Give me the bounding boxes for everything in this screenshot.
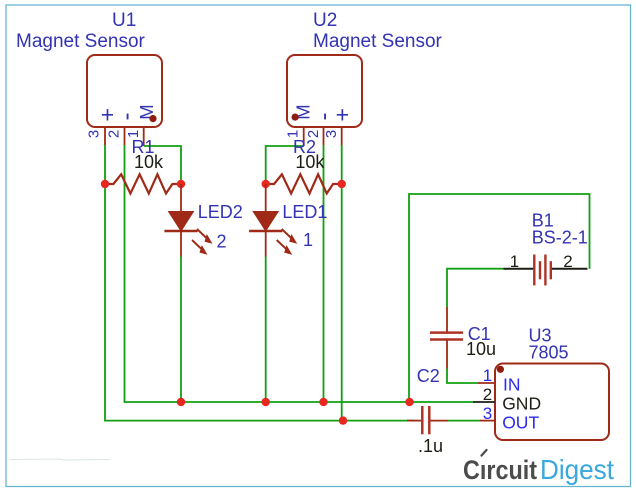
wire battery loop: down from top corner to upper bus [409,194,590,402]
watermark squiggle [10,459,110,460]
U1 origin dot [149,115,156,122]
svg-text:BS-2-1: BS-2-1 [532,228,588,248]
junction: LED1 line on upper bus [262,398,270,406]
svg-text:+: + [336,102,349,128]
battery B1 [504,255,588,286]
svg-text:C2: C2 [417,366,440,386]
svg-text:1: 1 [510,252,519,271]
svg-text:IN: IN [503,375,521,395]
resistor R1 [105,174,181,193]
capacitor C2 [407,406,448,434]
junction: U2 pin2 on upper bus [319,398,327,406]
svg-text:Digest: Digest [540,454,614,485]
U2 pin 2 stub [323,127,325,146]
svg-text:3: 3 [86,130,103,138]
svg-text:U2: U2 [313,10,337,31]
svg-text:Magnet Sensor: Magnet Sensor [313,31,443,52]
svg-text:-: - [310,113,337,121]
svg-text:GND: GND [502,394,541,414]
svg-text:2: 2 [217,232,227,252]
svg-text:LED2: LED2 [198,202,243,222]
wire battery pin1 to C1 branch [447,269,504,307]
U3 pin 3 stub [480,420,495,422]
svg-text:OUT: OUT [502,412,539,432]
svg-text:1: 1 [303,230,313,250]
R2 left junction [262,180,270,188]
wire U1 pin3 to lower bus and along lower bus to C2 [105,145,414,421]
wire LED2 cathode down to upper bus [180,257,182,403]
svg-text:7805: 7805 [529,343,569,363]
magnet sensor U2 body [287,55,362,127]
junction: battery loop on upper bus [405,398,413,406]
U3 origin dot [497,366,504,373]
svg-text:Cırcuit: Cırcuit [463,455,537,485]
svg-text:Magnet Sensor: Magnet Sensor [16,31,146,52]
svg-text:10k: 10k [295,152,325,172]
capacitor C1 [430,307,463,369]
R1 left junction [101,180,109,188]
svg-text:LED1: LED1 [282,202,327,222]
magnet sensor U1 body [87,55,162,127]
svg-text:10u: 10u [466,339,496,359]
U1 pin 1 stub [143,127,145,146]
U3 pin 1 stub [478,382,495,384]
U2 origin dot [292,114,299,121]
wire C2 right to U3 pin3 [448,420,480,422]
wire U1 pin2 to upper bus and along upper bus to U3 pin2 [125,145,474,402]
resistor R2 [266,174,342,193]
junction: U2 pin3 on lower bus [339,416,347,424]
wire U2 pin1 over to R2 left node [266,146,304,184]
wire U2 pin3 down to lower bus [341,145,343,421]
svg-text:2: 2 [563,252,572,271]
junction: LED2 line on upper bus [177,398,185,406]
svg-text:U1: U1 [112,10,136,31]
svg-text:.1u: .1u [418,436,443,456]
U1 pin 2 stub [124,127,126,146]
wire U1 pin1 over to R1 right node [144,146,181,184]
CircuitDigest logo [463,450,614,485]
U3 pin 2 stub (GND, black) [473,401,495,403]
svg-text:2: 2 [106,130,123,138]
LED2 [164,184,212,257]
svg-text:10k: 10k [134,152,164,172]
U2 pin 3 stub [341,127,343,146]
U2 pin 1 stub [303,127,305,146]
svg-text:3: 3 [323,130,340,138]
wire U2 pin2 down to upper bus [323,145,325,402]
LED1 [249,184,297,257]
regulator U3 body [495,364,609,441]
R1 right junction [177,180,185,188]
U1 pin 3 stub [104,127,106,146]
wire LED1 cathode down to upper bus [265,257,267,403]
wire C1 bottom to U3 pin1 [447,369,478,384]
R2 right junction [338,180,346,188]
